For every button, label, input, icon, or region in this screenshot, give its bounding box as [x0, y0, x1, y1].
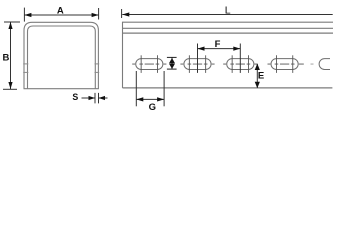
svg-text:L: L [225, 4, 231, 16]
slot 2 centerline [180, 63, 214, 65]
dimension B [3, 22, 20, 89]
slot 1 arc-center ticks [140, 55, 142, 73]
rail bottom edge [123, 87, 333, 89]
slot 1 centerline [132, 63, 166, 65]
slot 2 arc-center ticks [188, 55, 190, 73]
right wall ticks [95, 63, 100, 65]
dimension A [24, 8, 98, 22]
slot 3 arc-center ticks [231, 55, 233, 73]
dimension S [82, 93, 108, 104]
slot height dimension (between slot 1 and slot 2) [167, 57, 177, 69]
svg-text:E: E [258, 71, 264, 82]
rail fold line upper [123, 27, 334, 29]
dimension F [198, 44, 241, 73]
slot 2 [184, 59, 211, 70]
svg-text:B: B [3, 53, 10, 64]
slot 4 [271, 59, 298, 70]
slot 5 partial [319, 59, 330, 70]
svg-text:G: G [149, 102, 156, 113]
cross-section inner profile [28, 26, 96, 89]
left wall ticks [23, 63, 28, 65]
svg-text:F: F [215, 39, 221, 50]
slot 5 centerline stub [311, 63, 314, 65]
rail left edge [122, 22, 124, 88]
cross-section outer profile [24, 22, 98, 88]
dimension E [256, 64, 258, 88]
svg-text:S: S [72, 92, 78, 102]
slot 3 [227, 59, 254, 70]
cross-section bottom line [24, 88, 99, 90]
slot 3 centerline [223, 63, 257, 65]
slot 4 arc-center ticks [275, 55, 277, 73]
rail top edge [123, 21, 334, 23]
svg-text:A: A [57, 6, 64, 17]
dimension G [136, 71, 164, 106]
slot 1 [136, 59, 163, 70]
slot 4 centerline [268, 63, 304, 65]
rail fold line lower [123, 32, 334, 34]
dimension L [121, 9, 123, 18]
